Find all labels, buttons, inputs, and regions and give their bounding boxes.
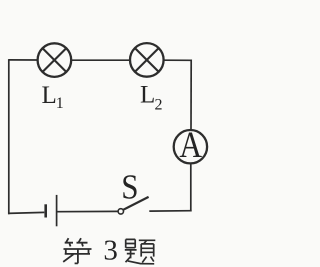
wire top-left segment [9, 59, 37, 61]
svg-text:1: 1 [56, 95, 64, 112]
ammeter A [174, 126, 207, 166]
wire between lamps [72, 59, 130, 61]
wire bottom-right segment [149, 210, 191, 212]
switch S arm [123, 197, 148, 210]
svg-text:L: L [140, 82, 155, 109]
wire right vertical lower [190, 164, 192, 211]
wire bottom-left segment [8, 212, 44, 213]
wire right vertical upper [190, 60, 192, 130]
battery cell: long thin positive plate [56, 195, 58, 226]
switch S pivot [118, 209, 123, 214]
wire L2 to top-right corner [164, 59, 191, 61]
caption: hanzi DI (第) hand drawn [63, 238, 91, 263]
wire left vertical [8, 59, 10, 214]
svg-text:2: 2 [155, 97, 163, 114]
svg-text:L: L [42, 82, 57, 109]
wire battery to switch [57, 210, 117, 212]
caption: hanzi TI (题) hand drawn [125, 239, 156, 263]
lamp L2 [130, 43, 164, 77]
svg-text:A: A [179, 126, 202, 166]
lamp L1 [38, 43, 72, 77]
battery cell: short thick negative plate [44, 204, 47, 217]
svg-text:S: S [121, 169, 138, 207]
svg-text:3: 3 [103, 235, 118, 267]
